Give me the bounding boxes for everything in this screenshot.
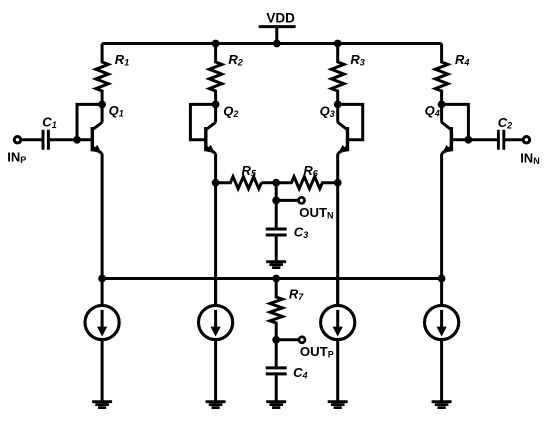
wire: bottom rail (102, 277, 442, 280)
capacitor C4 (266, 368, 287, 374)
transistor Q1 (91, 127, 94, 151)
resistor R1 (96, 44, 109, 123)
node: Q2 collector/base tie (212, 101, 220, 109)
wire: C4 to ground (275, 374, 278, 402)
junction: Q4 base/loop (465, 136, 473, 144)
current source I1 (under Q1) (85, 305, 119, 339)
capacitor C2 (498, 130, 503, 150)
wire: current source I1 (under Q1) to ground (101, 339, 104, 402)
junction on rail at Q2 column (212, 40, 220, 48)
wire: current source I3 (under Q3) to ground (336, 339, 339, 402)
wire: rail to current source I4 (under Q4) (440, 279, 443, 307)
junction on rail at VDD stub (273, 40, 281, 48)
junction: bottom rail at Q1 (98, 275, 106, 283)
resistor R7 (270, 279, 283, 340)
wire: OUTN stub (276, 199, 298, 202)
transistor Q4 (450, 127, 453, 151)
resistor R4 (435, 44, 448, 123)
ground (below C4) (266, 402, 286, 408)
wire: center tap down to OUTN node (275, 183, 278, 229)
junction: bottom rail center (272, 275, 280, 283)
capacitor C1 (43, 130, 48, 150)
wire: C2 to INN (504, 138, 523, 141)
junction on rail at Q3 column (334, 40, 342, 48)
junction: mid wire at Q2 (212, 179, 220, 187)
port INN terminal circle (523, 137, 529, 143)
current source I4 (under Q4) (425, 305, 459, 339)
wire: C3 to ground (275, 235, 278, 262)
ground (below C3) (266, 262, 286, 268)
wire: current source I4 (under Q4) to ground (440, 339, 443, 402)
junction: OUTP tap (272, 336, 280, 344)
wire: Q2 emitter down through mid wire and rail (214, 154, 217, 307)
wire: INP to C1 (21, 138, 43, 141)
resistor R6 (276, 177, 338, 189)
wire: Q1 collector-to-base feedback loop (77, 104, 102, 139)
resistor R2 (209, 44, 222, 123)
resistor R5 (216, 177, 262, 189)
port INP terminal circle (14, 137, 20, 143)
wire: Q1 base wire from C1 (48, 138, 92, 141)
transistor Q3 (346, 127, 349, 151)
capacitor C3 (266, 229, 287, 235)
ground (below I1 (under Q1)) (92, 402, 112, 408)
ground (below I4 (under Q4)) (432, 402, 452, 408)
wire: Q4 emitter down to bottom rail (440, 154, 443, 279)
junction: bottom rail at Q4 (438, 275, 446, 283)
wire: Q4 base wire to C2 (451, 138, 498, 141)
resistor R3 (331, 44, 344, 123)
node: Q4 collector/base tie (438, 101, 446, 109)
junction: OUTN tap (272, 197, 280, 205)
wire: rail to current source I1 (under Q1) (101, 279, 104, 307)
wire: Q1 emitter down to bottom rail (101, 154, 104, 279)
wire: OUTP stub (276, 338, 299, 341)
wire: rail to current source I3 (under Q3) (336, 279, 339, 307)
ground (below I3 (under Q3)) (328, 402, 348, 408)
wire: top supply rail (102, 42, 442, 45)
wire: rail to current source I2 (under Q2) (214, 279, 217, 307)
current source I3 (under Q3) (321, 305, 355, 339)
node: Q3 collector/base tie (334, 101, 342, 109)
wire: OUTP node down to C4 (275, 340, 278, 368)
wire: Q3 emitter down through mid wire and rail (336, 154, 339, 307)
wire: current source I2 (under Q2) to ground (214, 339, 217, 402)
wire: Q2 collector-to-base feedback loop (190, 104, 215, 139)
junction: Q1 base/loop (73, 136, 81, 144)
wire: Q4 collector-to-base feedback loop (442, 104, 469, 139)
junction: mid wire at Q3 (334, 179, 342, 187)
svg-text:VDD: VDD (266, 10, 295, 25)
port OUTP terminal circle (299, 337, 305, 343)
ground (below I2 (under Q2)) (206, 402, 226, 408)
port OUTN terminal circle (299, 197, 305, 203)
current source I2 (under Q2) (199, 305, 233, 339)
VDD supply symbol (259, 27, 296, 44)
node: Q1 collector/base tie (98, 101, 106, 109)
transistor Q2 (204, 127, 207, 151)
wire: Q3 collector-to-base feedback loop (338, 104, 363, 139)
junction: mid wire center (272, 179, 280, 187)
